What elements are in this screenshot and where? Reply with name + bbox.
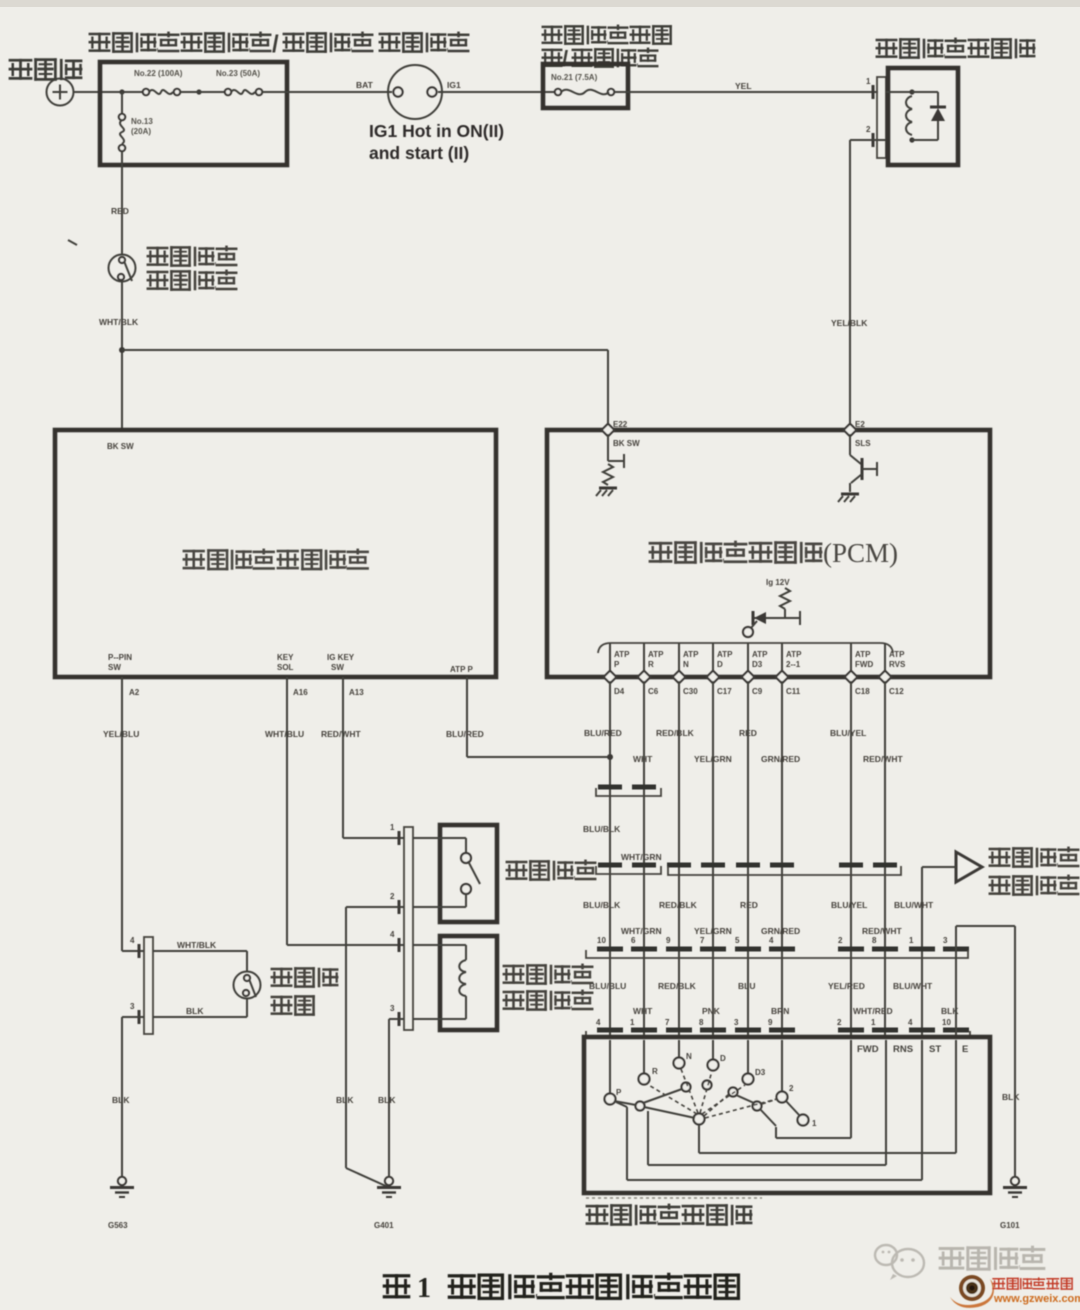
svg-text:RED/WHT: RED/WHT [862, 926, 902, 936]
svg-text:GRN/RED: GRN/RED [761, 926, 800, 936]
svg-text:3: 3 [130, 1002, 135, 1011]
svg-text:No.22 (100A): No.22 (100A) [134, 69, 183, 78]
svg-text:C18: C18 [855, 687, 870, 696]
svg-text:RED/BLK: RED/BLK [658, 981, 697, 991]
fuse No.22 (100A) [134, 69, 183, 95]
wire across to PCM E22 [122, 350, 608, 430]
wire WHT/BLK down [99, 281, 139, 430]
svg-text:SW: SW [108, 663, 121, 672]
svg-text:(PCM): (PCM) [823, 538, 898, 568]
key switch connector bracket [404, 827, 413, 1030]
svg-text:C30: C30 [683, 687, 698, 696]
PCM pin ATP N / C30 [673, 643, 699, 696]
Ig 12V pull-up [743, 578, 800, 637]
intermediate contacts [636, 1081, 762, 1111]
svg-text:ATP: ATP [717, 650, 733, 659]
svg-text:3: 3 [734, 1018, 739, 1027]
shift lock solenoid box [888, 68, 958, 165]
svg-text:BLK: BLK [186, 1006, 204, 1016]
pin IG KEY SW / A13 [327, 653, 364, 697]
svg-text:8: 8 [699, 1018, 704, 1027]
link D3-FWD contact [736, 1095, 776, 1126]
contact 1 [798, 1115, 818, 1129]
svg-text:BLK: BLK [112, 1095, 130, 1105]
connector C (10P) [586, 949, 969, 958]
svg-text:WHT/BLU: WHT/BLU [265, 729, 304, 739]
unit label 多路集成控制装置 [183, 549, 369, 571]
svg-text:WHT/RED: WHT/RED [853, 1006, 893, 1016]
under-dash fuse box label 仪表板下保险 / 丝/继电器盒 [542, 25, 672, 45]
key interlock coil [413, 945, 466, 1019]
svg-text:P: P [614, 660, 620, 669]
ground G101 [1000, 1177, 1027, 1230]
svg-text:9: 9 [666, 936, 671, 945]
wire interlock pin3 to ground BLK [378, 1019, 404, 1177]
wire from ATP RVS down to gear switch [884, 681, 886, 1037]
svg-text:ST: ST [929, 1044, 941, 1055]
pin KEY SOL / A16 [277, 653, 308, 697]
pin E22 / BK SW [602, 420, 640, 448]
svg-text:A16: A16 [293, 688, 308, 697]
svg-text:8: 8 [872, 936, 877, 945]
brake switch label 制动踏板 位置开关 [147, 246, 238, 267]
svg-text:BLU/BLK: BLU/BLK [583, 824, 621, 834]
scan dotted artifact [586, 1197, 762, 1199]
svg-text:R: R [648, 660, 654, 669]
wire battery to fuse box [74, 91, 144, 93]
starter cut relay label 起动机断 开继电器 [989, 847, 1080, 868]
PCM label 动力系控制模块(PCM) [649, 538, 898, 568]
svg-text:A2: A2 [129, 688, 140, 697]
PCM pin ATP D3 / C9 [742, 643, 768, 696]
contact N [674, 1052, 693, 1069]
svg-text:G401: G401 [374, 1221, 394, 1230]
svg-text:5: 5 [735, 936, 740, 945]
svg-text:RED: RED [740, 900, 758, 910]
svg-text:9: 9 [768, 1018, 773, 1027]
svg-text:C6: C6 [648, 687, 659, 696]
routing FWD [776, 1127, 851, 1138]
park pin switch [234, 951, 261, 1017]
svg-text:4: 4 [390, 930, 395, 939]
terminal labels FWD RNS ST E [857, 1044, 968, 1055]
svg-text:(20A): (20A) [131, 127, 151, 136]
svg-text:IG1 Hot in ON(II): IG1 Hot in ON(II) [369, 121, 504, 141]
svg-text:10: 10 [597, 936, 606, 945]
svg-text:2--1: 2--1 [786, 660, 801, 669]
svg-text:YEL/GRN: YEL/GRN [694, 754, 732, 764]
under-dash fuse/relay box [543, 64, 628, 108]
watermark wechat logo [875, 1245, 924, 1280]
svg-text:2: 2 [866, 125, 871, 134]
wire RED down from fusebox [111, 165, 129, 254]
connector D (10P) [586, 1030, 970, 1038]
svg-text:WHT: WHT [633, 754, 653, 764]
svg-text:P: P [616, 1088, 622, 1097]
svg-text:C9: C9 [752, 687, 763, 696]
svg-text:WHT/GRN: WHT/GRN [621, 852, 662, 862]
wire pin2 out and down YEL/BLK [831, 140, 886, 430]
svg-text:YEL/RED: YEL/RED [828, 981, 865, 991]
key switch label 钥匙开关 [506, 860, 597, 881]
wire from ATP D3 down to gear switch [747, 681, 749, 1037]
svg-text:WHT/GRN: WHT/GRN [621, 926, 662, 936]
wire WHT/BLU to interlock pin 4 [287, 677, 404, 945]
svg-text:G101: G101 [1000, 1221, 1020, 1230]
svg-text:BLU/BLU: BLU/BLU [589, 981, 626, 991]
svg-text:R: R [652, 1067, 658, 1076]
svg-text:BLU/YEL: BLU/YEL [831, 900, 867, 910]
wire YEL/BLU down [122, 677, 144, 951]
svg-text:No.13: No.13 [131, 117, 153, 126]
svg-text:E22: E22 [613, 420, 628, 429]
pin 1 [390, 823, 399, 845]
svg-text:IG1: IG1 [447, 80, 461, 90]
park pin switch label 驻车销 开关 [271, 967, 339, 988]
wire BLK to ground G101 [956, 926, 1020, 1177]
svg-text:D: D [720, 1054, 726, 1063]
fuse No.23 (50A) [216, 69, 262, 95]
pin 2 [866, 125, 873, 147]
wire BLU/WHT from starter relay down [894, 867, 956, 1037]
svg-text:RVS: RVS [889, 660, 906, 669]
pin 3 [390, 1004, 399, 1026]
svg-text:/: / [272, 31, 279, 58]
connector bracket [877, 77, 886, 158]
svg-text:BLU/RED: BLU/RED [446, 729, 484, 739]
svg-text:FWD: FWD [855, 660, 873, 669]
svg-text:RED: RED [739, 728, 757, 738]
pin 3 [130, 1002, 139, 1024]
key switch box [440, 825, 497, 922]
watermark 精通维修下载 [992, 1277, 1072, 1289]
contact 2 [777, 1084, 795, 1103]
ignition switch [388, 65, 442, 119]
ignition switch label 点火开关 [379, 32, 470, 53]
svg-text:C17: C17 [717, 687, 732, 696]
svg-text:A13: A13 [349, 688, 364, 697]
svg-text:D4: D4 [614, 687, 625, 696]
junction node [196, 89, 201, 94]
svg-text:ATP: ATP [786, 650, 802, 659]
svg-text:RED/BLK: RED/BLK [656, 728, 695, 738]
svg-text:ATP: ATP [889, 650, 905, 659]
wire BLK back to connector pin 3 [153, 1006, 247, 1017]
svg-text:BK SW: BK SW [107, 442, 134, 451]
svg-text:SOL: SOL [277, 663, 294, 672]
pin 2 [390, 892, 399, 914]
svg-text:KEY: KEY [277, 653, 294, 662]
svg-text:ATP: ATP [648, 650, 664, 659]
svg-text:1: 1 [390, 823, 395, 832]
svg-text:E: E [962, 1044, 968, 1055]
svg-text:Ig 12V: Ig 12V [766, 578, 790, 587]
svg-text:D3: D3 [755, 1068, 766, 1077]
PCM pin ATP P / D4 [604, 643, 630, 696]
svg-text:4: 4 [769, 936, 774, 945]
svg-text:SW: SW [331, 663, 344, 672]
svg-text:4: 4 [596, 1018, 601, 1027]
svg-text:/: / [562, 46, 568, 71]
ground G563 [108, 1177, 134, 1230]
svg-text:1: 1 [812, 1119, 817, 1128]
svg-text:10: 10 [942, 1018, 951, 1027]
svg-text:No.23 (50A): No.23 (50A) [216, 69, 260, 78]
PCM box [547, 430, 990, 677]
svg-text:YEL/BLK: YEL/BLK [831, 318, 868, 328]
svg-text:WHT/BLK: WHT/BLK [99, 317, 139, 327]
svg-text:6: 6 [631, 936, 636, 945]
connector (6P) [667, 865, 901, 875]
solenoid coil L [886, 89, 915, 142]
svg-text:BLU/WHT: BLU/WHT [894, 900, 934, 910]
pin P-PIN SW / A2 [108, 653, 140, 697]
svg-text:ATP: ATP [855, 650, 871, 659]
contact D3 [743, 1068, 766, 1085]
contact D [708, 1054, 727, 1071]
svg-text:N: N [683, 660, 689, 669]
svg-text:1: 1 [866, 77, 871, 86]
brake pedal position switch [109, 255, 136, 282]
svg-text:BRN: BRN [771, 1006, 789, 1016]
svg-text:1: 1 [909, 936, 914, 945]
svg-text:www.gzweix.com: www.gzweix.com [993, 1293, 1080, 1305]
svg-text:PNK: PNK [702, 1006, 721, 1016]
svg-text:1: 1 [630, 1018, 635, 1027]
rotor arm (solid) [614, 1089, 695, 1118]
connector (2P) [596, 787, 661, 796]
svg-text:BK SW: BK SW [613, 439, 640, 448]
pin 4 [130, 936, 139, 958]
solenoid clamp diode D [912, 92, 946, 140]
E22 internal switch + resistor + ground [596, 434, 624, 496]
multiplex integrated control unit box [55, 430, 496, 677]
E2 internal transistor + ground [838, 434, 877, 502]
svg-text:SLS: SLS [855, 439, 871, 448]
svg-text:P--PIN: P--PIN [108, 653, 132, 662]
battery [47, 79, 74, 106]
wire E down to gear switch [955, 949, 957, 1037]
ATP bus bracket [598, 643, 893, 653]
svg-text:RED/WHT: RED/WHT [863, 754, 903, 764]
svg-text:FWD: FWD [857, 1044, 879, 1055]
wire from ATP 2--1 down to gear switch [781, 681, 783, 1037]
wire from ATP D down to gear switch [712, 681, 714, 1037]
junction node [119, 89, 124, 94]
svg-text:No.21 (7.5A): No.21 (7.5A) [551, 73, 598, 82]
svg-text:7: 7 [700, 936, 705, 945]
gear switch internal wires [610, 1040, 956, 1180]
svg-text:IG KEY: IG KEY [327, 653, 355, 662]
ground G401 [374, 1177, 401, 1230]
svg-text:2: 2 [390, 892, 395, 901]
PCM pin ATP RVS / C12 [879, 643, 906, 696]
svg-text:BLK: BLK [1002, 1092, 1020, 1102]
contact R [639, 1067, 659, 1085]
junction node [119, 347, 125, 353]
wire from ATP FWD down to gear switch [850, 681, 852, 1037]
svg-text:BLU: BLU [738, 981, 755, 991]
link 2-1 [786, 1101, 800, 1116]
svg-text:RNS: RNS [893, 1044, 913, 1055]
svg-text:BLK: BLK [336, 1095, 354, 1105]
svg-text:2: 2 [838, 936, 843, 945]
rotor pivot [694, 1114, 705, 1125]
svg-text:GRN/RED: GRN/RED [761, 754, 800, 764]
key interlock label 钥匙联锁 电磁线圈 [503, 964, 594, 985]
svg-text:YEL: YEL [735, 81, 752, 91]
wire key switch pin2 to ground [336, 907, 404, 1187]
svg-text:3: 3 [390, 1004, 395, 1013]
fuse No.13 (20A) vertical [119, 92, 154, 165]
contact P [605, 1088, 623, 1105]
under-hood fuse/relay box label 发动机盖下保险丝/继电器盒 [89, 31, 374, 58]
wire BLK down to ground G563 [112, 1017, 144, 1177]
svg-text:C12: C12 [889, 687, 904, 696]
PCM pin ATP R / C6 [638, 643, 664, 696]
connector C (10P) pin numbers [597, 936, 948, 945]
svg-text:WHT: WHT [633, 1006, 653, 1016]
fuse No.21 (7.5A) [551, 73, 614, 95]
svg-text:C11: C11 [786, 687, 801, 696]
svg-text:BLU/YEL: BLU/YEL [830, 728, 866, 738]
svg-text:ATP: ATP [614, 650, 630, 659]
small pointer mark [68, 240, 77, 245]
connector (2P) [596, 865, 661, 874]
routing ST [616, 1102, 922, 1180]
svg-text:D3: D3 [752, 660, 763, 669]
gear switch label 变速器挡位开关 [586, 1204, 753, 1226]
wire multiplex ATP P (BLU/RED) down and right [467, 677, 613, 760]
park pin connector bracket [144, 937, 153, 1034]
svg-text:E2: E2 [855, 420, 865, 429]
pin 4 [390, 930, 399, 952]
svg-text:2: 2 [789, 1084, 794, 1093]
PCM pin ATP D / C17 [707, 643, 733, 696]
watermark orange logo [950, 1275, 994, 1308]
key interlock solenoid box [440, 936, 497, 1030]
wire from ATP R down to gear switch [643, 681, 645, 1037]
routing E to pivot [699, 1125, 956, 1153]
wire from ATP N down to gear switch [678, 681, 680, 1037]
svg-text:BAT: BAT [356, 80, 374, 90]
transmission gear position switch box [584, 1037, 990, 1193]
svg-text:4: 4 [908, 1018, 913, 1027]
svg-text:ATP: ATP [683, 650, 699, 659]
svg-text:RED/BLK: RED/BLK [659, 900, 698, 910]
svg-text:WHT/BLK: WHT/BLK [177, 940, 217, 950]
svg-text:BLU/RED: BLU/RED [584, 728, 622, 738]
wire WHT/BLK to switch [153, 940, 247, 951]
svg-text:and start (II): and start (II) [369, 143, 469, 163]
watermark 汽修案例 [939, 1246, 1046, 1271]
caption 图1 点火钥匙电控原理电路图 [383, 1273, 740, 1304]
wire from ATP P down to gear switch [609, 681, 611, 1037]
rotor dashed rays [647, 1069, 777, 1118]
svg-text:YEL/GRN: YEL/GRN [694, 926, 732, 936]
svg-text:RED/WHT: RED/WHT [321, 729, 361, 739]
wire YEL to shift lock solenoid [614, 91, 878, 93]
connector D (10P) pin numbers [596, 1018, 951, 1027]
svg-text:1: 1 [417, 1273, 431, 1304]
shift lock solenoid label 换挡锁电磁线圈 [876, 38, 1036, 59]
key switch contacts [413, 838, 480, 907]
pin E2 / SLS [844, 420, 872, 448]
svg-text:D: D [717, 660, 723, 669]
svg-text:4: 4 [130, 936, 135, 945]
starter cut relay symbol [956, 852, 982, 882]
svg-text:RED: RED [111, 206, 129, 216]
svg-text:BLU/BLK: BLU/BLK [583, 900, 621, 910]
wire fusebox to ignition switch, terminal BAT [261, 91, 392, 93]
svg-text:BLU/WHT: BLU/WHT [893, 981, 933, 991]
svg-text:1: 1 [871, 1018, 876, 1027]
PCM pin ATP FWD / C18 [845, 643, 874, 696]
svg-text:G563: G563 [108, 1221, 128, 1230]
under-hood fuse/relay box [100, 62, 287, 165]
svg-text:ATP P: ATP P [450, 665, 473, 674]
pin 1 [866, 77, 873, 99]
svg-text:7: 7 [665, 1018, 670, 1027]
IG1 hot note [369, 121, 504, 163]
svg-text:ATP: ATP [752, 650, 768, 659]
svg-text:2: 2 [837, 1018, 842, 1027]
svg-text:3: 3 [943, 936, 948, 945]
battery label 蓄电池 [9, 58, 83, 81]
svg-text:BLK: BLK [378, 1095, 396, 1105]
svg-text:N: N [686, 1052, 692, 1061]
PCM pin ATP 2--1 / C11 [776, 643, 802, 696]
wire ignition to under-dash fuse box [438, 91, 558, 93]
routing RNS [648, 1111, 886, 1165]
wire RED/WHT to key switch pin 1 [343, 677, 404, 838]
